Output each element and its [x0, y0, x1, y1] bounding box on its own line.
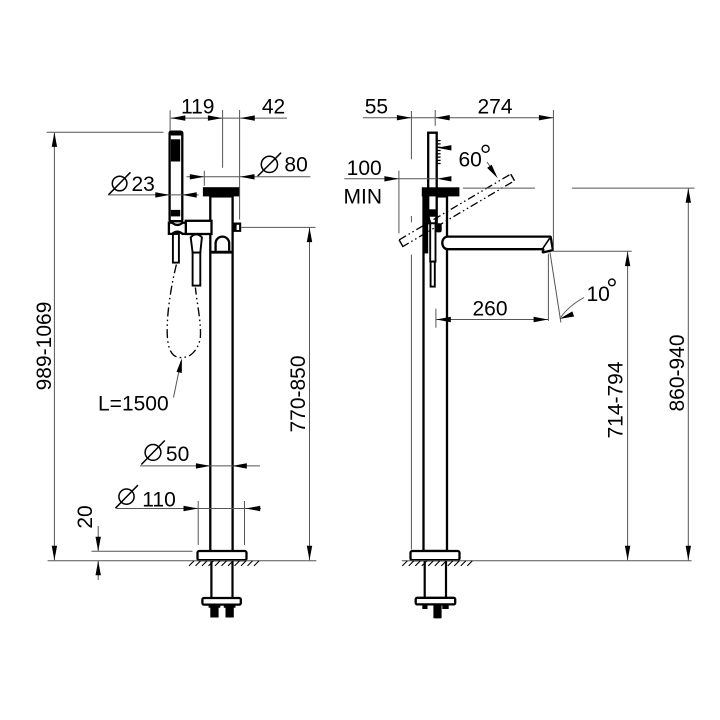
arrow 714 top: [625, 252, 630, 267]
ext line column axis: [222, 110, 224, 168]
svg-text:50: 50: [166, 443, 189, 466]
ext line flange right: [244, 501, 246, 545]
wand taper side: [429, 216, 437, 224]
leader 60deg: [487, 162, 496, 174]
svg-text:274: 274: [477, 96, 512, 119]
holder knuckle side (black): [436, 223, 442, 232]
arrow 860 top: [686, 188, 691, 203]
handle base line: [211, 251, 231, 254]
ext line flange-edge upper: [410, 111, 412, 159]
wand lower ring black: [171, 210, 180, 217]
svg-text:MIN: MIN: [344, 186, 383, 209]
wand spray band black: [171, 139, 180, 161]
ext line column axis side: [434, 110, 436, 126]
arrow 860 bottom: [686, 546, 691, 561]
dia50 symbol: [141, 441, 165, 465]
arrow 714 bottom: [625, 546, 630, 561]
svg-text:80: 80: [284, 153, 307, 176]
svg-text:770-850: 770-850: [287, 355, 310, 432]
under-floor tube front left edge: [210, 561, 212, 598]
arrow 274 left: [435, 115, 450, 120]
bolt 2 front: [224, 605, 236, 618]
arrow 60deg: [487, 165, 500, 180]
dim 20 lower tail: [97, 561, 99, 580]
dim line dia50: [140, 465, 260, 467]
ext line flange top: [92, 550, 193, 552]
handle 60deg end cap upper: [511, 174, 515, 181]
foot left side: [422, 604, 427, 609]
spout side: [442, 237, 553, 253]
arrow 274 right: [539, 115, 554, 120]
mounting plate front: [202, 598, 240, 605]
dim 770-850 top ext from knob: [241, 226, 315, 228]
arrow dia80 right: [240, 174, 255, 179]
svg-text:23: 23: [132, 173, 155, 196]
ref line 100 min: [398, 171, 400, 234]
ext line cap right: [239, 110, 241, 220]
arrow dia23 left: [155, 192, 170, 197]
arrow 20 up: [96, 561, 101, 576]
svg-text:100: 100: [347, 157, 382, 180]
dia110 symbol: [115, 485, 137, 508]
under-floor tube front right edge: [231, 561, 233, 598]
arrow 770 top: [307, 228, 312, 243]
wand band side: [427, 209, 437, 216]
dim 989-1069 vertical line: [53, 132, 55, 560]
svg-text:860-940: 860-940: [666, 334, 689, 411]
ext line flange left: [197, 501, 199, 545]
tick 260 left: [435, 309, 437, 328]
side knob slit: [237, 225, 240, 230]
arrow 989 bottom: [52, 546, 57, 561]
lever arch handle front: [216, 237, 230, 251]
dim 714-794 vertical line: [627, 251, 629, 560]
arrow L=1500: [176, 358, 184, 373]
ext line wand top: [47, 131, 164, 133]
dim line dia80: [187, 176, 311, 178]
wand tail tube below holder: [173, 234, 179, 263]
leader L=1500: [174, 361, 182, 398]
arrow 20 down: [96, 537, 101, 552]
spray face comb: [437, 141, 441, 164]
ext line spout outlet: [553, 250, 632, 252]
ext line spout tip: [552, 110, 554, 251]
hose connector taper: [191, 234, 202, 252]
hand shower wand front: [170, 132, 183, 222]
spout drop vertical line: [547, 254, 549, 321]
spout tip inner edge: [543, 238, 550, 248]
mounting plate side: [416, 598, 456, 605]
degree circle 60: [482, 145, 489, 152]
handle 60deg position (dash-dot): [399, 174, 514, 246]
svg-text:20: 20: [74, 505, 97, 528]
svg-text:55: 55: [365, 96, 388, 119]
arrow dia110 right: [246, 506, 261, 511]
svg-text:989-1069: 989-1069: [33, 302, 56, 391]
dia80 symbol: [258, 153, 281, 176]
bolt side: [433, 604, 441, 618]
arrow 119 left: [171, 115, 186, 120]
top cap disc side (black): [422, 187, 460, 196]
hose connector tube: [193, 253, 201, 286]
arrow dia80 left: [190, 174, 205, 179]
arrow dia50 left: [196, 463, 211, 468]
floor hatching left view: [189, 561, 259, 566]
column riser side: [424, 196, 448, 551]
dim line 260: [436, 319, 549, 321]
floor line right view: [402, 560, 692, 562]
arrow dia110 left: [184, 506, 199, 511]
arrow 989 top: [52, 132, 57, 147]
svg-text:714-794: 714-794: [605, 361, 628, 438]
arrow 260 right: [534, 317, 549, 322]
dim 20 upper tail: [97, 526, 99, 551]
svg-text:10: 10: [587, 283, 610, 306]
handle 60deg end cap lower: [399, 240, 403, 247]
svg-text:119: 119: [181, 96, 214, 119]
hand shower wand side: [428, 133, 437, 224]
arrow dia50 right: [232, 463, 247, 468]
shower holder right block: [186, 221, 212, 234]
column riser front: [210, 196, 232, 551]
svg-text:260: 260: [472, 297, 507, 320]
ext line wand left: [169, 110, 171, 131]
rule 100 MIN: [344, 178, 437, 180]
floor line left view: [48, 560, 317, 562]
bolt 1 front: [209, 605, 221, 618]
arrow 10deg: [559, 311, 574, 321]
arrow 260 left: [436, 317, 451, 322]
hose loop (dash-dot): [167, 265, 200, 358]
shower holder left cup: [169, 223, 186, 234]
svg-text:42: 42: [262, 96, 285, 119]
ext line cap top right: [572, 187, 695, 189]
floor flange side: [411, 551, 460, 560]
degree circle 10: [609, 279, 616, 286]
floor flange front: [198, 551, 247, 560]
arrow 119 right: [208, 115, 223, 120]
dim line 55/274: [363, 117, 554, 119]
ext line flange-edge lower: [410, 255, 412, 550]
dim 770-850 vertical line: [309, 227, 311, 560]
side knob front (black): [234, 223, 242, 232]
foot right side: [442, 604, 448, 609]
dim line dia23: [108, 194, 199, 196]
ext line cap left: [203, 171, 205, 186]
arc 10deg: [561, 298, 584, 318]
dim 860-940 vertical line: [687, 188, 689, 560]
wand tube lower side: [431, 262, 435, 287]
arrow 42 outside: [240, 115, 255, 120]
arrow 55 left: [397, 115, 412, 120]
under-floor tube side right edge: [445, 561, 447, 598]
arrow 770 bottom: [307, 546, 312, 561]
dia23 symbol: [109, 172, 131, 195]
svg-text:60: 60: [459, 149, 482, 172]
wand head black top: [171, 132, 182, 136]
spout drop slanted line: [550, 252, 561, 322]
top cap disc (black) front: [203, 187, 240, 196]
arrow 100 right: [384, 176, 399, 181]
under-floor tube side left edge: [424, 561, 426, 598]
arrow dia23 right: [182, 192, 197, 197]
svg-text:L=1500: L=1500: [98, 393, 169, 416]
wand tube side: [430, 223, 435, 261]
dim line 119/42: [171, 117, 287, 119]
arrow wand face upper: [437, 145, 452, 150]
floor hatching right view: [402, 561, 472, 566]
arrow 100 left-point: [437, 176, 452, 181]
dim line dia110: [117, 508, 262, 510]
holder bracket side (black strip): [424, 196, 428, 253]
ext line cap top dashed left: [463, 187, 535, 189]
ext line flange-edge mid: [410, 216, 412, 222]
